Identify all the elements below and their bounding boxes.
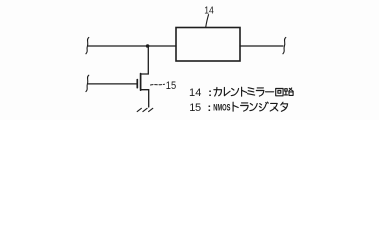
svg-text::: : bbox=[208, 87, 212, 99]
svg-text::: : bbox=[208, 102, 212, 114]
svg-text:5: 5 bbox=[195, 102, 201, 114]
svg-text:15: 15 bbox=[166, 80, 176, 92]
svg-text:4: 4 bbox=[195, 87, 201, 99]
svg-text:14: 14 bbox=[204, 5, 214, 17]
svg-text:NMOS: NMOS bbox=[213, 103, 230, 114]
